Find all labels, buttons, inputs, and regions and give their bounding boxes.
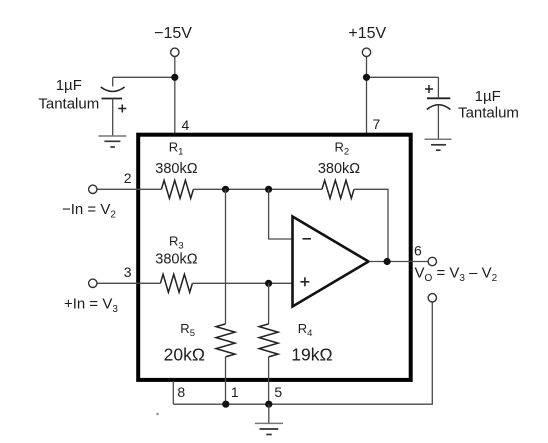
node: pin 5 junction dot (265, 401, 272, 408)
wire: R3 to op-amp plus input (192, 282, 292, 284)
resistor R2 zigzag (322, 180, 354, 198)
capacitor C2 plus sign (425, 88, 433, 90)
wire: output return down to ground rail (173, 302, 432, 404)
ground: main circuit ground (255, 422, 283, 424)
node: +15V junction dot (363, 74, 370, 81)
wire: R1 to inverting node (193, 188, 322, 190)
svg-text:R1: R1 (169, 140, 184, 158)
wire: pin 8 stub (172, 381, 174, 404)
svg-text:R4: R4 (298, 321, 313, 339)
wire: stub down to capacitor C2 flat plate (437, 77, 439, 97)
IC package box U1 (138, 135, 411, 380)
wire: pin 2 input to R1 (97, 188, 161, 190)
svg-text:20kΩ: 20kΩ (164, 345, 205, 365)
terminal: +In open circle (pin 3) (89, 279, 97, 287)
svg-text:4: 4 (182, 117, 190, 133)
wire: inverting node down and into op-amp minus input (269, 189, 293, 239)
svg-text:380kΩ: 380kΩ (155, 161, 197, 177)
node: -15V junction dot (171, 74, 178, 81)
svg-text:8: 8 (177, 384, 185, 400)
node: pin 1 junction dot (222, 401, 229, 408)
terminal: VO output open circle (pin 6) (428, 257, 436, 265)
svg-text:19kΩ: 19kΩ (291, 345, 332, 365)
op-amp U1 triangle (293, 217, 369, 307)
wire: C1 flat plate down to ground (112, 99, 114, 136)
svg-text:1µF: 1µF (475, 88, 501, 105)
wire: op-amp output through pin 6 (369, 261, 429, 263)
capacitor C1 curved plate (1uF tantalum, left) (101, 87, 125, 92)
svg-text:+In = V3: +In = V3 (64, 295, 118, 315)
wire: ground stem below pin 5 (268, 404, 270, 423)
op-amp minus input sign (303, 238, 312, 240)
terminal: +15V open circle (362, 48, 370, 56)
wire: stub from -15V rail down to capacitor C1 curved plate (112, 77, 114, 86)
svg-text:R5: R5 (180, 321, 195, 339)
svg-text:3: 3 (124, 264, 132, 280)
node: output junction dot (384, 258, 391, 265)
svg-text:R2: R2 (335, 140, 350, 158)
stray mark dot (156, 413, 158, 415)
resistor R3 zigzag (160, 274, 192, 292)
svg-text:380kΩ: 380kΩ (318, 161, 360, 177)
resistor R5 vertical zigzag (216, 324, 235, 357)
svg-text:R3: R3 (169, 234, 184, 252)
svg-text:7: 7 (373, 116, 381, 132)
node: inverting-input junction dot (265, 186, 272, 193)
resistor R4 vertical zigzag (259, 324, 278, 357)
svg-text:5: 5 (274, 384, 282, 400)
wire: C2 curved plate down to ground (437, 105, 439, 139)
capacitor C1 plus sign (118, 108, 126, 110)
svg-text:2: 2 (124, 170, 132, 186)
node: R1/R5 junction dot (222, 186, 229, 193)
capacitor C2 flat plate (1uF tantalum, right) (427, 97, 450, 99)
svg-text:1: 1 (231, 384, 239, 400)
svg-text:−15V: −15V (154, 25, 192, 42)
capacitor C2 curved plate (427, 105, 451, 110)
svg-text:VO = V3 – V2: VO = V3 – V2 (415, 265, 498, 285)
resistor R1 zigzag (161, 180, 193, 198)
wire: +15V horizontal to right capacitor (367, 76, 439, 78)
svg-text:380kΩ: 380kΩ (155, 252, 197, 268)
wire: pin 3 input to R3 (97, 282, 160, 284)
node: non-inverting junction dot (265, 280, 272, 287)
wire: R4 top from non-inverting node (268, 283, 270, 324)
ground: below C2 (425, 138, 452, 140)
op-amp plus input sign (300, 281, 309, 283)
wire: +15V vertical feed to pin 7 (366, 57, 368, 133)
ground: below C1 (98, 135, 126, 137)
wire: R4 bottom to pin 5 (268, 357, 270, 404)
terminal: -In open circle (pin 2) (89, 185, 97, 193)
svg-text:+15V: +15V (348, 25, 386, 42)
wire: -15V horizontal to left capacitor (113, 76, 175, 78)
svg-text:1µF: 1µF (56, 77, 82, 94)
wire: R2 right side to output node (354, 189, 388, 261)
terminal: -15V open circle (171, 48, 179, 56)
wire: -15V vertical feed to pin 4 (174, 57, 176, 133)
svg-text:6: 6 (414, 242, 422, 258)
svg-text:Tantalum: Tantalum (458, 105, 519, 122)
svg-text:Tantalum: Tantalum (38, 95, 99, 112)
terminal: output return open circle (428, 294, 436, 302)
wire: R5 top from inverting rail (225, 189, 227, 324)
wire: R5 bottom to pin 1 (225, 357, 227, 404)
capacitor C1 flat plate (102, 98, 123, 100)
svg-text:−In = V2: −In = V2 (62, 201, 116, 221)
